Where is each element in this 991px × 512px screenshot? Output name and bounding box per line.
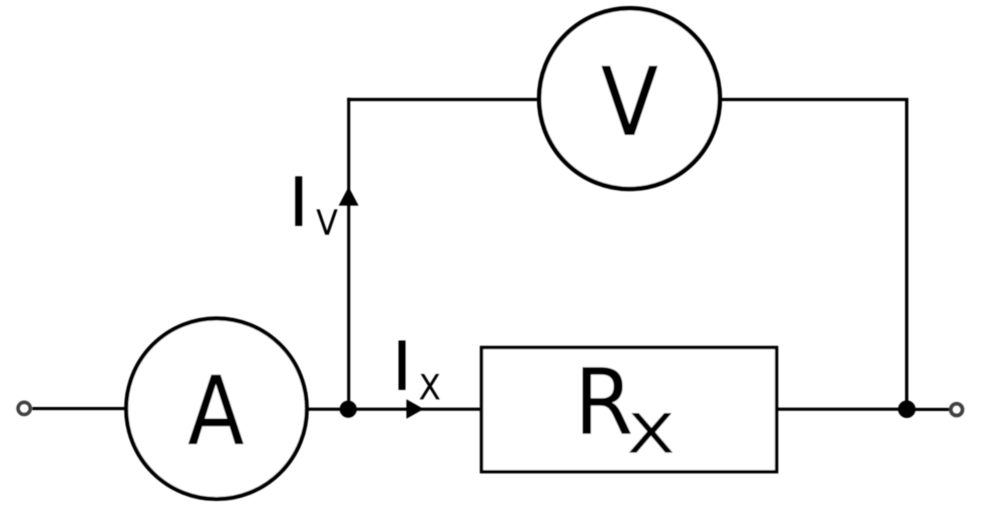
node N2 (junction dot)	[898, 400, 916, 418]
label RX : letter R	[583, 367, 631, 434]
wire: ammeter to node N1	[307, 408, 349, 411]
label RX : subscript X	[629, 413, 673, 453]
wire: node N1 up to top-left corner	[347, 98, 350, 410]
wire: top-right corner down to node N2	[905, 98, 908, 409]
wire: left terminal to ammeter	[32, 407, 126, 410]
terminal T1 (left open circle)	[18, 402, 30, 414]
wire: resistor RX to node N2	[777, 408, 907, 411]
label IV : subscript V	[316, 209, 337, 234]
ammeter A1	[126, 318, 307, 499]
label A (ammeter)	[188, 375, 243, 444]
wire: node N1 to resistor RX	[349, 408, 481, 411]
label V (voltmeter)	[601, 66, 657, 135]
voltmeter V1	[539, 8, 720, 189]
resistor RX (box)	[482, 348, 777, 472]
label IX : subscript X	[420, 374, 440, 399]
label IX : letter I	[399, 341, 406, 390]
arrow: current IX direction (right)	[406, 399, 423, 418]
wire: node N2 to right terminal	[907, 408, 949, 411]
terminal T2 (right open circle)	[951, 404, 963, 416]
node N1 (junction dot)	[340, 401, 357, 418]
label IV : letter I	[295, 176, 302, 226]
wire: voltmeter to top-right corner	[720, 98, 909, 101]
arrow: current IV direction (up)	[339, 187, 359, 206]
wire: top-left corner to voltmeter	[347, 98, 540, 101]
